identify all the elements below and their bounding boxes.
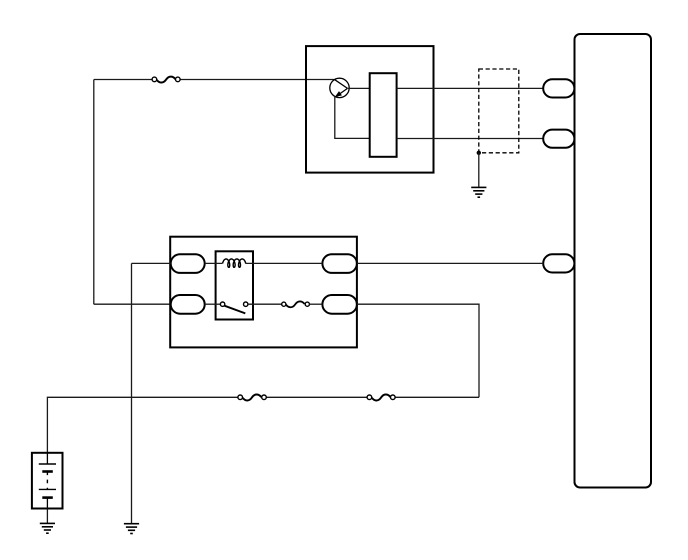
wire: R1 to connector pin 1 y=88.4 [397, 87, 544, 89]
wire: switch row contact to breaker F2 [248, 303, 282, 305]
connector pin oval P1 (to ECU, y=88) [543, 79, 574, 97]
battery BT1 internals [39, 453, 56, 509]
wire: Q1 emitter drop [335, 97, 370, 139]
wire: coil row from coil to T3 [246, 262, 323, 264]
wire: bottom run y=397.3 [47, 397, 479, 453]
ground G3 (battery) [40, 523, 55, 533]
junction dot at shield ground [477, 151, 481, 155]
connector pin oval P2 (to ECU, y=138.5) [543, 130, 574, 148]
relay terminal oval T4 (right, switch row) [322, 295, 357, 314]
resistor R1 (ballast element) [370, 73, 397, 157]
ground G1 (shield) [471, 187, 486, 197]
relay terminal oval T1 (left, coil row) [171, 254, 205, 273]
relay box K1 [170, 237, 357, 348]
circuit breaker F1 (top wire) [152, 77, 180, 83]
circuit breaker F4 (bottom right) [367, 395, 395, 401]
wire: T4 to right drop x=479 [357, 304, 479, 397]
ECU tall rounded box [575, 34, 652, 488]
wire: battery to ground [46, 509, 48, 524]
wire: coil row from T3 to pin P3 [357, 262, 544, 264]
circuit breaker F3 (bottom left) [238, 395, 266, 401]
relay terminal oval T2 (left, switch row) [171, 295, 205, 314]
relay terminal oval T3 (right, coil row) [322, 254, 357, 273]
wire: feed to relay switch row y=304.2 [94, 303, 171, 305]
wire: R1 to connector pin 2 y=138.5 [397, 138, 544, 140]
wire: coil row from T1 to coil [205, 262, 223, 264]
relay inner box (coil + contact) [216, 251, 253, 319]
wire: battery feed top horizontal y=79.5 [94, 79, 334, 81]
battery BT1 outline [32, 453, 63, 509]
wire: relay ground vertical x=131.5 [131, 263, 133, 523]
wire: shield ground drop [478, 153, 480, 187]
wire: T1 left lead to ground leg [132, 262, 171, 264]
transistor Q1 [330, 78, 349, 97]
flasher unit box U1 [306, 46, 434, 173]
shield connector (dashed box) [479, 69, 519, 153]
wire: Q1 collector to resistor [348, 87, 370, 89]
relay coil L1 [223, 259, 246, 267]
connector pin oval P3 (to ECU, y=263.4) [543, 254, 574, 272]
ground G2 (relay) [124, 524, 139, 534]
circuit breaker F2 (inside relay box) [282, 301, 310, 307]
wire: breaker F2 to T4 [309, 303, 322, 305]
wire: switch row from T2 to contact [205, 303, 221, 305]
wire: left vertical drop x=93.8 [93, 80, 95, 305]
relay contact S1 (open switch) [220, 302, 247, 313]
